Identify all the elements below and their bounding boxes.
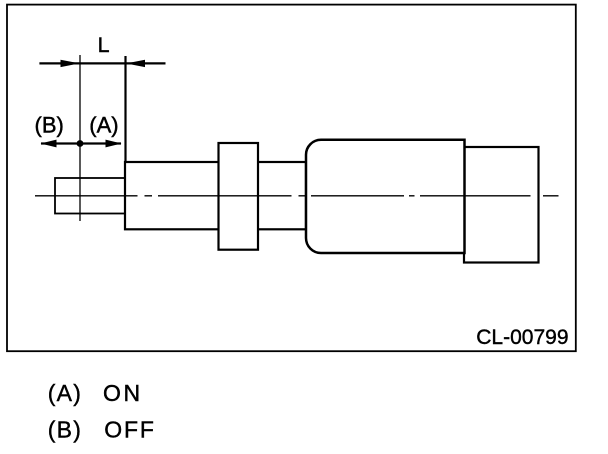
double arrow A/B bbox=[41, 142, 121, 144]
centerline bbox=[35, 195, 559, 197]
hex nut flange bbox=[219, 143, 259, 250]
svg-text:CL-00799: CL-00799 bbox=[476, 326, 568, 349]
dimension arrowhead left bbox=[61, 60, 80, 67]
dimension arrowhead right bbox=[126, 60, 145, 67]
threaded shaft bbox=[125, 162, 306, 229]
pivot dot bbox=[77, 140, 84, 147]
svg-text:(B): (B) bbox=[35, 112, 64, 137]
extension line left bbox=[79, 55, 81, 221]
connector end piece bbox=[464, 147, 539, 263]
pushrod tip bbox=[55, 178, 125, 214]
svg-text:(B): (B) bbox=[48, 416, 82, 442]
svg-text:L: L bbox=[98, 33, 110, 57]
switch body bbox=[306, 140, 465, 253]
svg-text:(A): (A) bbox=[89, 112, 118, 137]
dimension line L bbox=[39, 62, 165, 64]
extension line right bbox=[124, 56, 126, 163]
svg-text:(A): (A) bbox=[48, 380, 82, 406]
svg-text:OFF: OFF bbox=[104, 416, 155, 442]
svg-text:ON: ON bbox=[103, 380, 143, 406]
